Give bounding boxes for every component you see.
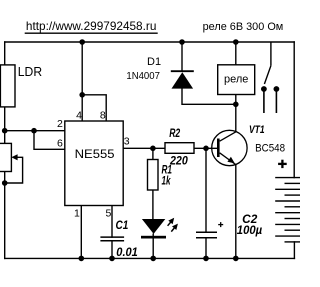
C2 polarity plus (218, 224, 223, 226)
node wiper return (2, 180, 8, 186)
node top D1 (179, 39, 185, 45)
node bus emitter (233, 256, 239, 262)
wire pin3 to R2 (123, 147, 165, 149)
contact terminal left (261, 86, 267, 92)
potentiometer (threshold trimmer) (0, 143, 23, 183)
wire C2 top from base node (205, 148, 207, 232)
relay K1 coil box (218, 65, 255, 95)
node top relay (233, 39, 239, 45)
battery GB1 (275, 178, 300, 242)
svg-text:C1: C1 (116, 219, 129, 232)
battery plus sign (278, 160, 287, 168)
capacitor C2 (electrolytic) (196, 213, 262, 238)
wire pin2 from left rail (5, 130, 65, 132)
wire pin8 branch (82, 95, 106, 121)
node base/C2 (203, 146, 209, 152)
wire relay bottom (235, 95, 237, 105)
capacitor C1 (100, 219, 137, 259)
svg-text:NE555: NE555 (75, 149, 115, 161)
LED HL1 (141, 218, 178, 239)
svg-text:реле 6В 300 Ом: реле 6В 300 Ом (203, 21, 284, 33)
svg-text:8: 8 (100, 110, 106, 122)
svg-text:5: 5 (106, 208, 112, 220)
wire pin1 to bus (80, 206, 82, 259)
svg-text:4: 4 (76, 110, 82, 122)
collector diagonal (220, 132, 237, 142)
wire R1 top (152, 148, 154, 159)
svg-text:2: 2 (57, 118, 63, 130)
wire pin6 branch (34, 131, 65, 150)
node bus pin1 (79, 256, 85, 262)
svg-text:100µ: 100µ (237, 224, 263, 237)
svg-text:6: 6 (57, 137, 63, 149)
diode D1 1N4007 (126, 56, 193, 89)
wire collector (235, 104, 237, 131)
base bar (217, 139, 220, 158)
LED emission arrow 2 (171, 228, 174, 232)
node junction dots (2, 39, 239, 261)
node pin2/pin6 (31, 128, 37, 134)
wire D1 drop from top rail (181, 42, 183, 71)
node bus C2 (203, 256, 209, 262)
wire battery bottom to bus (293, 242, 295, 259)
timer U1 NE555 body (57, 110, 130, 220)
node top pin4/8 (79, 39, 85, 45)
transistor Q1 VT1 BC548 (212, 124, 285, 166)
wire R1 bottom to LED (152, 190, 154, 219)
node D1/relay/collector (233, 102, 239, 108)
node pin8 branch (79, 92, 85, 98)
svg-text:1N4007: 1N4007 (126, 71, 160, 82)
svg-text:D1: D1 (147, 56, 161, 68)
wire left rail (4, 42, 6, 258)
resistor R1 (148, 160, 173, 191)
wire wiper return (5, 157, 23, 183)
wire pin4 drop from top rail (81, 42, 83, 121)
contact terminal right (274, 86, 280, 92)
svg-text:реле: реле (224, 73, 248, 85)
wire emitter to bus (235, 165, 237, 259)
resistor R2 (165, 127, 194, 168)
wire top supply rail (5, 41, 295, 43)
svg-text:BC548: BC548 (255, 143, 285, 155)
svg-text:3: 3 (124, 136, 130, 148)
wire C2 bottom to bus (205, 238, 207, 259)
wire right rail to battery top (293, 42, 295, 178)
wire R2 to base (194, 147, 217, 149)
svg-text:VT1: VT1 (249, 124, 265, 136)
wire D1 anode down and right to relay bottom (182, 89, 236, 105)
svg-text:http://www.299792458.ru: http://www.299792458.ru (26, 19, 157, 33)
node pin3/R1 (150, 146, 156, 152)
svg-text:1k: 1k (162, 174, 171, 187)
node left rail pin2 (2, 128, 8, 134)
wire pin5 to C1 (111, 206, 113, 238)
emitter diagonal (220, 153, 237, 165)
wire LED cathode to bus (152, 238, 154, 258)
svg-text:0.01: 0.01 (116, 246, 138, 259)
wiper arrow (11, 154, 17, 160)
emitter arrowhead (227, 157, 234, 164)
LED emission arrow 1 (168, 222, 171, 226)
wire relay top drop (235, 42, 237, 65)
wire C1 to bus (111, 241, 113, 259)
node bus C1 (109, 256, 115, 262)
switch (relay contacts) (261, 42, 279, 113)
photoresistor LDR (0, 65, 42, 107)
svg-text:1: 1 (74, 208, 80, 220)
svg-text:R2: R2 (169, 127, 180, 140)
site link label (25, 19, 158, 33)
wire bottom ground bus (5, 257, 295, 259)
node bus LED (150, 256, 156, 262)
svg-text:LDR: LDR (18, 65, 42, 79)
